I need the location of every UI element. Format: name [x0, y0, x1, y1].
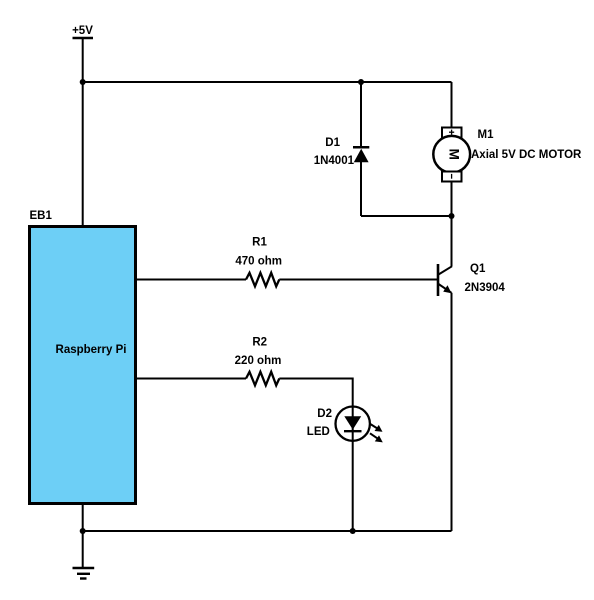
svg-text:D2: D2 [317, 408, 332, 420]
transistor Q1 collector [439, 266, 452, 274]
motor M1 - terminal box [442, 172, 462, 182]
wire motor - terminal down to transistor collector [451, 181, 453, 267]
wire EB1 to R1 [137, 279, 246, 281]
svg-text:Axial 5V DC MOTOR: Axial 5V DC MOTOR [471, 149, 582, 161]
wire emitter down to bottom rail [451, 293, 453, 531]
LED D2 cathode bar [344, 430, 362, 432]
svg-text:D1: D1 [325, 137, 340, 149]
ground bar 3 [80, 577, 87, 579]
svg-text:LED: LED [307, 426, 330, 438]
wire R1 to transistor base [279, 279, 437, 281]
motor M1 body circle [433, 136, 470, 173]
junction LED bottom [350, 528, 356, 534]
svg-text:R1: R1 [252, 237, 267, 249]
junction bottom rail left [80, 528, 86, 534]
LED D2 emission arrow 1 [370, 424, 383, 432]
svg-text:Raspberry Pi: Raspberry Pi [56, 344, 127, 356]
diode D1 cathode bar [353, 146, 369, 149]
power +5V bar [73, 37, 94, 39]
wire diode bottom to motor bottom [361, 215, 452, 217]
bottom rail wire [83, 530, 452, 532]
transistor Q1 emitter arrowhead [443, 285, 451, 293]
LED D2 emission arrow 2 [370, 433, 383, 442]
svg-text:220 ohm: 220 ohm [235, 355, 282, 367]
motor M1 plus sign [449, 130, 454, 135]
junction motor/diode bottom [449, 213, 455, 219]
motor M1 minus sign (rotated dash) [451, 174, 453, 179]
svg-text:2N3904: 2N3904 [465, 282, 506, 294]
svg-text:M1: M1 [478, 129, 495, 141]
wire +5V rail to motor [83, 81, 452, 83]
svg-text:Q1: Q1 [470, 263, 486, 275]
LED D2 vertical lead through [352, 407, 354, 532]
svg-text:M: M [447, 149, 462, 160]
resistor R1 zigzag [246, 273, 279, 287]
transistor Q1 emitter [439, 284, 452, 293]
svg-text:+5V: +5V [72, 25, 93, 37]
svg-text:R2: R2 [252, 337, 267, 349]
wire +5V down to EB1 [82, 38, 84, 225]
junction at +5V branch [80, 79, 86, 85]
diode D1 triangle [354, 149, 369, 163]
diode D1 bottom lead [360, 162, 362, 216]
Raspberry Pi block EB1 [30, 227, 136, 504]
diode D1 top lead [360, 82, 362, 147]
wire rail down to motor + terminal [451, 82, 453, 128]
ground bar 2 [77, 573, 90, 575]
LED D2 triangle [344, 416, 361, 429]
transistor Q1 base bar [437, 264, 440, 296]
svg-text:470 ohm: 470 ohm [235, 255, 282, 267]
junction diode top [358, 79, 364, 85]
wire EB1 bottom down to ground [82, 503, 84, 568]
ground bar 1 [73, 567, 95, 569]
svg-text:EB1: EB1 [30, 210, 53, 222]
wire R2 to LED corner [279, 379, 352, 407]
motor M1 + terminal box [442, 128, 462, 138]
LED D2 circle [336, 407, 370, 441]
wire EB1 to R2 [137, 378, 246, 380]
svg-text:1N4001: 1N4001 [314, 155, 355, 167]
resistor R2 zigzag [246, 372, 279, 386]
